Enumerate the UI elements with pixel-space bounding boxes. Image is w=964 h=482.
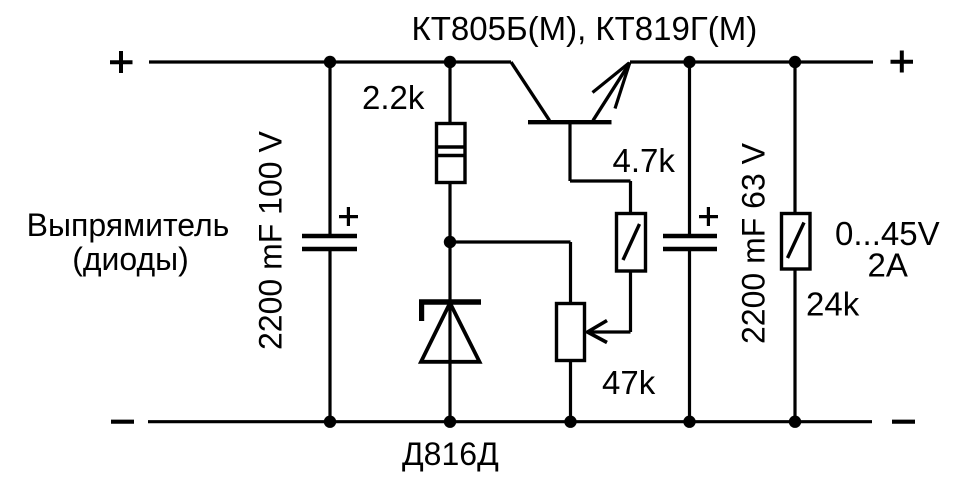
wire: R2 bottom lead	[629, 272, 632, 332]
node: pot bottom junction	[564, 416, 576, 428]
wire: pot top lead	[569, 242, 572, 303]
node: C2 bottom junction	[683, 416, 695, 428]
minus terminal bottom-left	[111, 420, 134, 424]
svg-text:24k: 24k	[806, 286, 860, 323]
wire: C2 top lead	[688, 62, 691, 235]
resistor R2 body with diagonal	[617, 214, 646, 272]
node: zener bottom junction	[444, 416, 456, 428]
svg-text:Д816Д: Д816Д	[402, 436, 499, 472]
node: C1 top junction	[324, 56, 336, 68]
svg-text:2A: 2A	[868, 247, 908, 284]
transistor VT1 emitter arrow barb upper	[593, 63, 630, 93]
wire: R4 bottom lead	[793, 269, 796, 422]
wire: bottom rail	[148, 420, 872, 423]
node: R4 bottom junction	[789, 416, 801, 428]
svg-text:47k: 47k	[602, 364, 656, 401]
zener diode VD1 triangle	[421, 303, 480, 362]
plus terminal top-right	[891, 51, 914, 73]
label: Выпрямитель (диоды)	[27, 207, 230, 277]
svg-text:Выпрямитель: Выпрямитель	[27, 207, 230, 243]
resistor R4 body with diagonal	[782, 214, 811, 270]
svg-text:2.2k: 2.2k	[362, 79, 425, 116]
wire: R2 top lead	[629, 181, 632, 213]
resistor R1 body	[436, 124, 465, 183]
capacitor C2 polarity plus	[699, 207, 718, 226]
wire: base vertical segment	[568, 122, 571, 181]
transistor VT1 collector lead	[511, 62, 550, 121]
svg-text:4.7k: 4.7k	[613, 142, 676, 179]
plus terminal top-left	[110, 51, 133, 73]
capacitor C1 plates	[302, 236, 357, 249]
wire: R1 bottom lead / zener chain	[448, 182, 451, 422]
wire: top rail right segment	[630, 60, 873, 63]
transistor VT1 emitter arrow barb lower	[615, 64, 630, 109]
zener diode VD1 cathode bar	[419, 299, 481, 304]
wire: top rail left segment	[149, 60, 511, 63]
node: R1 top junction	[444, 56, 456, 68]
node: C1 bottom junction	[324, 416, 336, 428]
zener diode VD1 cathode hook	[419, 302, 424, 321]
capacitor C2 plates	[663, 236, 717, 249]
transistor VT1 emitter lead	[593, 63, 630, 121]
node: zener top junction	[444, 236, 456, 248]
wire: wiper horizontal	[589, 330, 631, 333]
potentiometer R3 body	[557, 304, 585, 361]
wire: C1 top lead	[328, 62, 331, 235]
svg-text:2200 mF 63 V: 2200 mF 63 V	[736, 142, 772, 344]
wire: pot bottom lead	[569, 361, 572, 422]
svg-text:КТ805Б(М), КТ819Г(М): КТ805Б(М), КТ819Г(М)	[412, 10, 758, 47]
wiper arrowhead	[588, 321, 608, 343]
node: R4 top junction	[789, 56, 801, 68]
wire: C2 bottom lead	[688, 249, 691, 422]
wire: junction to pot horizontal	[450, 240, 571, 243]
minus terminal bottom-right	[892, 420, 915, 424]
capacitor C1 polarity plus	[339, 207, 358, 226]
wire: C1 bottom lead	[328, 249, 331, 422]
svg-text:2200 mF 100 V: 2200 mF 100 V	[253, 131, 289, 350]
svg-text:(диоды): (диоды)	[72, 241, 189, 277]
wire: base horizontal jog	[570, 179, 631, 182]
transistor VT1 base bar	[528, 120, 612, 124]
node: C2 top junction	[683, 56, 695, 68]
wire: R4 top lead	[793, 62, 796, 213]
wire: R1 top lead	[448, 62, 451, 122]
